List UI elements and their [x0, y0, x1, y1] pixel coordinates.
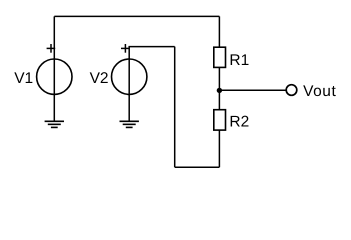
wire V2 bottom to ground	[128, 94, 130, 121]
voltage source V1	[14, 44, 72, 94]
svg-text:R2: R2	[229, 114, 249, 131]
wire down to R1 top	[218, 16, 220, 47]
junction node dot	[217, 88, 222, 93]
wire V2+ up and right to mid rail	[129, 47, 175, 59]
wire V1 bottom to ground	[53, 94, 55, 121]
wire node to Vout terminal	[219, 89, 286, 91]
voltage source V2	[90, 44, 147, 94]
wire mid rail down	[174, 47, 176, 168]
svg-text:R1: R1	[229, 52, 249, 69]
ground under V1	[45, 121, 64, 127]
terminal Vout	[286, 83, 336, 100]
wire bottom up to R2	[218, 130, 220, 167]
wire top rail horizontal	[54, 15, 219, 17]
resistor R1	[214, 47, 249, 69]
svg-text:V2: V2	[90, 70, 109, 87]
wire bottom rail	[175, 166, 220, 168]
svg-text:Vout: Vout	[303, 83, 336, 100]
ground under V2	[120, 121, 139, 127]
wire V1+ up to top rail	[53, 16, 55, 59]
wire R1 bottom to R2 top	[218, 67, 220, 109]
svg-text:V1: V1	[14, 70, 33, 87]
resistor R2	[214, 110, 249, 131]
